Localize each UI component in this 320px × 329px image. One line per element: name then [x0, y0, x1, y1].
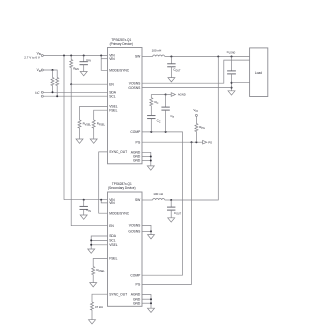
terminal I2C SDA — [41, 91, 43, 93]
node COMP RC junction — [150, 131, 152, 133]
svg-text:EN: EN — [109, 224, 114, 228]
node L2 output junction — [170, 199, 172, 201]
svg-text:PG: PG — [136, 283, 141, 287]
terminal VIN input — [41, 55, 43, 57]
inductor L2 100 nH — [142, 199, 153, 201]
node pullup SDA junction — [52, 69, 54, 71]
capacitor C_OUT secondary — [170, 200, 172, 207]
ground C_OUT primary — [168, 78, 175, 82]
svg-text:GND: GND — [133, 301, 141, 305]
wire U2 AGND/GND tie — [142, 295, 151, 309]
wire SYNC_OUT to secondary MODE/SYNC — [99, 152, 108, 213]
capacitor C_ff — [165, 95, 167, 108]
ground U1 GND — [147, 166, 154, 170]
node Cff top junction — [165, 94, 167, 96]
inductor L1 100 nH — [142, 56, 153, 58]
resistor SDA pull-up — [52, 70, 54, 78]
wire VIN2 secondary jog — [101, 200, 107, 203]
node SCL pull-up junction — [56, 95, 58, 97]
svg-text:SYNC_OUT: SYNC_OUT — [109, 292, 127, 296]
svg-text:GOSNS: GOSNS — [128, 86, 141, 90]
resistor R_C — [150, 106, 152, 116]
ground U2 SDA/SCL/VSEL — [88, 249, 95, 253]
ground R_FSEL secondary — [90, 283, 97, 287]
wire U1 AGND/GND tie — [142, 152, 151, 166]
svg-text:Load: Load — [255, 71, 262, 75]
net arrow AGND — [166, 94, 172, 96]
svg-text:47 kΩ: 47 kΩ — [95, 305, 104, 309]
wire SDA — [43, 91, 107, 93]
svg-text:VOSNS: VOSNS — [129, 224, 141, 228]
node VOUT down-branch junction — [217, 56, 219, 58]
wire VIN2/MODE jog — [101, 56, 107, 71]
svg-text:MODE/SYNC: MODE/SYNC — [109, 211, 130, 215]
ground C_LOAD — [228, 91, 235, 95]
wire load ground return — [232, 82, 250, 84]
svg-text:AGND: AGND — [178, 93, 186, 97]
terminal VIO — [41, 69, 43, 71]
IC U2 TPS6287x-Q1 secondary device box — [108, 192, 143, 306]
wire PG net — [142, 141, 203, 143]
wire PG to secondary (down) — [142, 142, 192, 284]
svg-text:SYNC_OUT: SYNC_OUT — [109, 150, 127, 154]
capacitor C_OUT primary — [170, 57, 172, 64]
wire U2 SDA/SCL/VSEL tie — [91, 236, 107, 249]
svg-text:PG: PG — [208, 140, 212, 144]
wire COMP net to secondary — [142, 132, 183, 275]
svg-text:VIN: VIN — [109, 57, 115, 61]
svg-text:EN: EN — [109, 82, 114, 86]
wire VIN rail — [43, 55, 107, 57]
wire VIO rail — [43, 70, 57, 78]
node GOSNS sense junction — [231, 87, 233, 89]
node RPG bottom junction — [195, 141, 197, 143]
ground U2 GND — [148, 308, 155, 312]
svg-text:VIN: VIN — [109, 201, 115, 205]
wire EN to secondary (down) — [71, 84, 107, 226]
IC U1 TPS6287x-Q1 primary device box — [108, 48, 143, 164]
capacitor C_IN primary — [83, 56, 85, 62]
svg-text:2.7 V to 6 V: 2.7 V to 6 V — [24, 56, 40, 60]
wire VOUT to secondary inductor (down) — [171, 57, 218, 201]
svg-text:SW: SW — [135, 198, 141, 202]
svg-text:AGND: AGND — [131, 293, 141, 297]
node CIN top junction — [83, 55, 85, 57]
svg-text:MODE/SYNC: MODE/SYNC — [109, 68, 130, 72]
svg-text:COMP: COMP — [130, 130, 141, 134]
svg-text:PG: PG — [136, 140, 141, 144]
svg-text:COMP: COMP — [130, 273, 141, 277]
resistor R_VSEL — [80, 107, 108, 121]
resistor R_FSEL primary — [94, 110, 108, 120]
svg-text:CIN: CIN — [86, 58, 91, 63]
svg-text:SDA: SDA — [109, 234, 117, 238]
svg-text:100 nH: 100 nH — [153, 192, 163, 196]
node SDA pull-up junction — [52, 91, 54, 93]
resistor R_FSEL secondary — [93, 259, 107, 267]
wire VIN to secondary (down) — [63, 56, 65, 200]
node EN junction — [70, 83, 72, 85]
svg-text:100 nH: 100 nH — [152, 49, 162, 53]
resistor R_PG — [195, 116, 197, 123]
wire VIN secondary rail — [64, 199, 108, 201]
svg-text:SCL: SCL — [109, 239, 116, 243]
resistor R_EN — [70, 56, 72, 60]
svg-text:I²C: I²C — [35, 91, 40, 95]
svg-text:VSEL: VSEL — [109, 243, 118, 247]
node REN top junction — [70, 55, 72, 57]
node VIN2 secondary branch — [100, 199, 102, 201]
ground C_IN secondary — [80, 215, 87, 219]
ground SYNC_OUT pull-down — [89, 320, 96, 324]
ground R_FSEL primary — [90, 139, 97, 143]
node L1 output junction — [170, 56, 172, 58]
wire VOSNS+ remote sense — [142, 60, 250, 83]
ground C_OUT secondary — [168, 218, 175, 222]
capacitor C_IN secondary — [83, 200, 85, 207]
wire RC to AGND — [151, 94, 165, 96]
node PG to secondary junction — [191, 141, 193, 143]
wire SCL — [43, 95, 107, 97]
svg-text:VOSNS: VOSNS — [129, 81, 141, 85]
svg-text:SCL: SCL — [109, 94, 116, 98]
svg-text:FSEL: FSEL — [109, 108, 117, 112]
node load return junction — [231, 82, 233, 84]
wire GOSNS remote sense — [142, 87, 232, 89]
ground CIN primary — [80, 72, 87, 76]
node C_LOAD top junction — [231, 56, 233, 58]
svg-text:FSEL: FSEL — [109, 257, 117, 261]
node CIN2 junction — [83, 199, 85, 201]
wire VIN2 stub — [101, 58, 107, 60]
svg-text:SW: SW — [135, 55, 141, 59]
load box — [250, 48, 268, 97]
wire EN — [71, 83, 107, 85]
terminal I2C SCL — [41, 95, 43, 97]
svg-text:(Secondary Device): (Secondary Device) — [108, 186, 136, 190]
wire U2 VOSNS/GOSNS tie — [142, 225, 151, 231]
svg-text:(Primary Device): (Primary Device) — [110, 42, 133, 46]
capacitor C_C — [150, 119, 152, 132]
net arrow PG — [203, 140, 207, 144]
resistor 47 kOhm SYNC_OUT pull-down — [92, 294, 108, 302]
ground U2 VOSNS/GOSNS — [148, 235, 155, 239]
node VIN2 branch junction — [100, 55, 102, 57]
ground R_VSEL — [76, 139, 83, 143]
node COMP Cff junction — [165, 131, 167, 133]
capacitor C_LOAD — [231, 57, 233, 71]
svg-text:GND: GND — [133, 159, 141, 163]
svg-text:GOSNS: GOSNS — [128, 230, 141, 234]
resistor SCL pull-up — [56, 78, 59, 86]
terminal VIO pull-up — [195, 114, 197, 116]
node VIN-stack junction — [63, 55, 65, 57]
